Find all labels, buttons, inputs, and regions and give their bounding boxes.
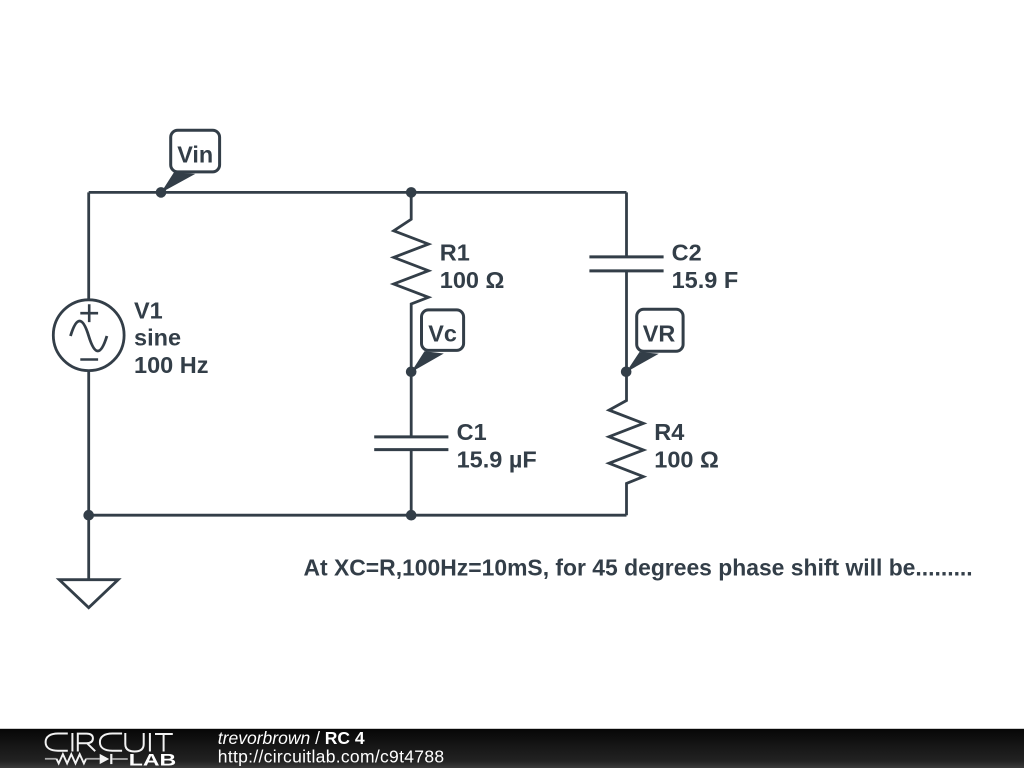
ground symbol [59, 580, 118, 608]
logo CIRCUIT letter U [125, 733, 143, 752]
wire left riser bottom [87, 371, 90, 516]
svg-text:100 Ω: 100 Ω [440, 267, 505, 293]
wire top rail [89, 191, 627, 194]
footer bar [0, 729, 1024, 768]
junction node R1 top [406, 187, 417, 198]
logo CIRCUIT letter T [155, 734, 173, 752]
svg-text:trevorbrown / RC 4: trevorbrown / RC 4 [218, 728, 365, 748]
logo CIRCUIT letter C [46, 734, 68, 751]
node label Vin [161, 130, 220, 193]
wire ground lead [87, 515, 90, 580]
node label VR [626, 309, 683, 372]
svg-text:15.9 F: 15.9 F [672, 267, 739, 293]
svg-text:http://circuitlab.com/c9t4788: http://circuitlab.com/c9t4788 [218, 747, 445, 767]
logo wire mid [86, 758, 100, 760]
resistor R1 [394, 192, 429, 371]
wire left riser top [87, 192, 90, 300]
V1 sine wave [71, 321, 107, 351]
logo LAB text [129, 751, 176, 768]
capacitor C2 [589, 192, 663, 371]
svg-text:C1: C1 [457, 419, 487, 445]
svg-text:At XC=R,100Hz=10mS, for 45 deg: At XC=R,100Hz=10mS, for 45 degrees phase… [304, 554, 973, 580]
V1 plus sign [80, 304, 98, 322]
svg-text:15.9 µF: 15.9 µF [457, 447, 537, 473]
logo CIRCUIT letter I2 [149, 733, 151, 752]
logo CIRCUIT letter I [71, 733, 73, 752]
logo CIRCUIT letter R [77, 733, 95, 752]
junction node bottom-left [83, 510, 94, 521]
node label Vc [411, 310, 464, 372]
node Vin dot [156, 187, 167, 198]
logo resistor lead in [45, 758, 57, 760]
logo diode lead out [112, 758, 127, 760]
svg-text:Vc: Vc [428, 321, 457, 347]
junction node C1 bottom [406, 510, 417, 521]
node VR dot [621, 367, 632, 378]
logo resistor zigzag [57, 754, 87, 763]
logo diode triangle [100, 754, 110, 764]
svg-text:100 Hz: 100 Hz [134, 352, 208, 378]
node Vc dot [406, 367, 417, 378]
logo CIRCUIT letter C2 [100, 734, 122, 751]
V1 minus sign [80, 358, 98, 361]
svg-text:C2: C2 [672, 239, 702, 265]
svg-text:100 Ω: 100 Ω [654, 447, 719, 473]
wire bottom rail [89, 514, 627, 517]
capacitor C1 [374, 372, 448, 515]
svg-text:V1: V1 [134, 298, 163, 324]
logo diode bar [110, 754, 112, 764]
svg-text:R1: R1 [440, 239, 470, 265]
voltage source V1 circle [53, 300, 124, 371]
svg-text:Vin: Vin [177, 142, 213, 168]
svg-text:R4: R4 [654, 419, 684, 445]
svg-text:sine: sine [134, 325, 181, 351]
resistor R4 [609, 372, 644, 515]
svg-text:VR: VR [643, 321, 676, 347]
svg-text:LAB: LAB [129, 751, 176, 768]
